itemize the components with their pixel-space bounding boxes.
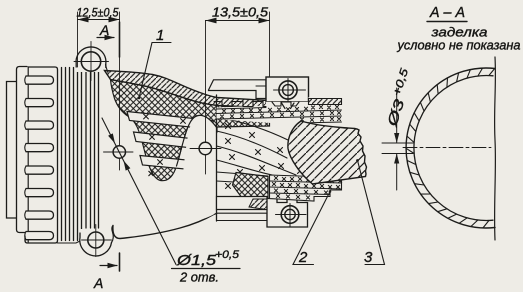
- wire band 3: [140, 156, 192, 170]
- screw block top: [266, 77, 309, 102]
- section arrow A top: [97, 37, 114, 39]
- rib slot 2: [26, 99, 54, 107]
- connector shell outer cap: [7, 82, 18, 219]
- body bottom outline sweep to clamp: [113, 214, 217, 239]
- connector shell inner cap: [17, 67, 28, 233]
- hole O1,5 second: [205, 21, 207, 175]
- bottom diagonal wedge: [249, 199, 267, 210]
- screw block bottom: [267, 199, 308, 228]
- svg-text:Ø1,5: Ø1,5: [176, 253, 217, 269]
- svg-text:А: А: [93, 275, 103, 291]
- top serrated shim: [214, 102, 266, 107]
- leader 3: [358, 161, 385, 265]
- svg-text:А – А: А – А: [429, 4, 465, 21]
- flange bottom ear: [80, 229, 112, 256]
- boot outer skin (hatched band): [105, 71, 270, 109]
- rib slot 3: [26, 121, 54, 129]
- wrap bands bottom right: [270, 175, 342, 201]
- svg-text:12,5±0,5: 12,5±0,5: [77, 6, 119, 20]
- svg-text:3: 3: [364, 249, 373, 266]
- section arrow A bottom: [119, 253, 121, 271]
- wrap bands top right: [217, 97, 342, 127]
- U right edge outline: [177, 115, 218, 166]
- rib slot 4: [26, 144, 54, 152]
- boot U-bottom small hatch: [149, 171, 153, 175]
- dim O3+0,5: [382, 142, 413, 144]
- bottom clamp strap bar: [217, 197, 268, 210]
- svg-text:+0,5: +0,5: [215, 249, 240, 261]
- flange top ear: [76, 47, 106, 72]
- rib slot 8: [26, 232, 54, 240]
- svg-text:1: 1: [156, 27, 164, 44]
- svg-text:условно не показана: условно не показана: [397, 38, 521, 53]
- bottom ear mounting hole: [88, 232, 104, 248]
- wire bundle lines through clamp: [217, 117, 289, 140]
- backshell interior void: [183, 115, 217, 220]
- svg-text:2 отв.: 2 отв.: [179, 270, 219, 285]
- hole O1,5: [119, 12, 121, 170]
- section A-A ring outer arc: [406, 68, 495, 228]
- dim 13,5+-0,5: [269, 12, 271, 77]
- rib slot 6: [26, 189, 54, 197]
- wire band 2: [134, 132, 214, 151]
- svg-text:2: 2: [298, 249, 308, 266]
- leader 2: [293, 192, 330, 265]
- flange plate lines: [85, 70, 87, 228]
- clamp left edge: [216, 95, 218, 221]
- text O1,5 2 otv.: [172, 268, 241, 270]
- grommet wedge (cross-hatched): [233, 173, 269, 198]
- bottom foot: [217, 213, 268, 221]
- break line: [494, 57, 497, 240]
- screw head top: [279, 81, 297, 99]
- svg-text:13,5±0,5: 13,5±0,5: [212, 6, 268, 20]
- rib slot 5: [26, 166, 54, 174]
- section A-A ring inner arc: [414, 75, 493, 220]
- centerline: [403, 147, 491, 149]
- top clamp saddle bar: [209, 80, 267, 99]
- leader 1: [139, 43, 171, 99]
- cable (item 3, hatched): [288, 121, 367, 184]
- connector shell ribbed comb: [25, 67, 58, 243]
- rib slot 1: [26, 76, 54, 84]
- screw head bottom: [281, 206, 299, 224]
- rubber boot body (cross-hatched): [111, 80, 270, 181]
- ring hatch: [489, 69, 495, 76]
- svg-text:А: А: [99, 22, 109, 38]
- dim 12,5+-0,5: [77, 12, 79, 67]
- rib slot 7: [26, 211, 54, 219]
- wire band 1: [127, 112, 213, 130]
- top ear mounting hole: [81, 52, 100, 71]
- shell cylindrical section lines: [61, 68, 63, 241]
- leader O1,5 through hole: [102, 118, 176, 265]
